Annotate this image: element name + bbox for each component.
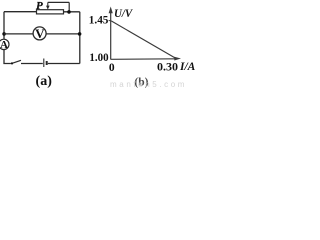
svg-text:P: P [36,0,43,12]
rheostat P body [37,10,64,14]
voltmeter V [33,26,46,41]
svg-text:0: 0 [109,62,115,74]
node top junction [67,10,71,14]
wire right vertical [79,12,81,64]
svg-text:0.30: 0.30 [157,59,178,73]
battery cell [44,59,47,68]
svg-text:(a): (a) [36,74,53,89]
x-axis I/A [111,57,181,61]
graph line [111,21,176,59]
background [0,0,198,90]
node left voltmeter junction [2,32,6,36]
wire left vertical [3,12,5,39]
ammeter A [0,39,9,51]
svg-text:1.00: 1.00 [89,52,108,64]
rheostat slider arrow [46,2,50,9]
y-axis U/V [109,7,113,60]
wire below ammeter to bottom corner [4,49,11,63]
node right voltmeter junction [78,32,82,36]
svg-text:U/V: U/V [114,6,133,20]
svg-text:manfen5.com: manfen5.com [110,80,187,89]
wire voltmeter left [4,33,33,35]
tick 1.45 [109,20,111,22]
svg-text:1.45: 1.45 [89,15,109,27]
svg-text:I/A: I/A [179,61,196,73]
svg-text:V: V [35,26,45,41]
switch S [11,60,21,64]
wire top-left horizontal [4,11,37,13]
wire slider top horizontal [48,1,69,3]
wire slider down to node [68,2,70,11]
wire voltmeter right [46,33,80,35]
wire switch to battery [21,63,43,65]
wire rheostat right to top-right corner [64,11,80,13]
wire battery to bottom-right corner [48,63,80,65]
